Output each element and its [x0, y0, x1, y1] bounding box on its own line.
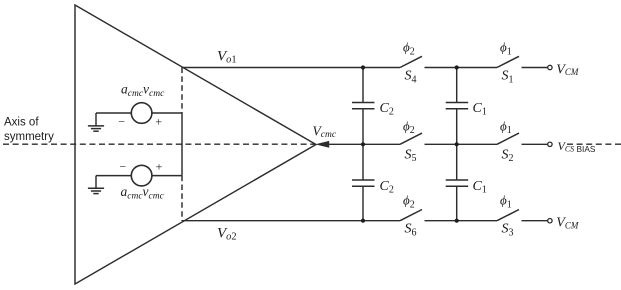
- wire (source E1 to node, + side): [152, 112, 182, 114]
- svg-text:S2: S2: [502, 147, 514, 164]
- svg-text:Axis of: Axis of: [4, 117, 39, 129]
- svg-text:ϕ2: ϕ2: [403, 118, 415, 136]
- svg-text:C2: C2: [380, 101, 394, 118]
- switch S6 blade (phi2): [400, 210, 422, 221]
- svg-text:S5: S5: [405, 147, 417, 164]
- svg-text:ϕ2: ϕ2: [403, 40, 415, 58]
- terminal VCM (top) open circle: [548, 65, 552, 69]
- svg-text:VCM: VCM: [556, 62, 579, 77]
- axis of symmetry dashed line (right segment through VCS BIAS label): [567, 143, 621, 145]
- svg-text:VCM: VCM: [556, 216, 579, 231]
- terminal VCS BIAS open circle: [548, 142, 552, 146]
- op-amp U1 (fully differential amplifier triangle): [75, 5, 316, 284]
- wire (S3 to VCM terminal): [522, 220, 548, 222]
- junction dot (Vo1 / C2 top): [361, 65, 365, 69]
- wire (S5 to S2 pivot): [425, 143, 498, 145]
- junction dot (Vo2 / C1 bottom): [455, 219, 459, 223]
- junction dot (Vcmc / C2): [361, 142, 365, 146]
- wire (node Vo1 rail to switch S4): [182, 67, 400, 69]
- wire (S2 to VCS BIAS terminal): [522, 143, 548, 145]
- capacitor C1 (bottom): [446, 144, 469, 220]
- svg-text:−: −: [119, 159, 126, 173]
- svg-text:ϕ1: ϕ1: [500, 118, 512, 136]
- controlled source E2 (a_cmc v_cmc) circle: [131, 165, 152, 186]
- switch S3 blade (phi1): [497, 210, 519, 221]
- wire (ground to source E2): [96, 175, 131, 177]
- wire (Vcmc arrow to switch S5): [328, 143, 400, 145]
- wire (S1 to VCM terminal): [522, 67, 548, 69]
- wire (sources common vertical, x=182): [181, 113, 183, 176]
- svg-text:S3: S3: [502, 222, 514, 239]
- ground (top source): [88, 113, 104, 131]
- junction dot (Vo1 / C1 top): [455, 65, 459, 69]
- switch S4 blade (phi2): [400, 56, 422, 67]
- switch S2 blade (phi1): [497, 133, 519, 144]
- wire (source E2 to node, + side): [152, 175, 182, 177]
- terminal VCM (bottom) open circle: [548, 219, 552, 223]
- svg-text:C2: C2: [380, 179, 394, 196]
- dashed feedback line lower (node Vo2 sense): [181, 176, 183, 221]
- wire (S6 to S3 pivot): [425, 220, 498, 222]
- capacitor C2 (bottom): [352, 144, 375, 220]
- controlled source E1 (a_cmc v_cmc) circle: [131, 103, 152, 124]
- svg-text:S4: S4: [405, 69, 417, 86]
- node Vcmc arrow into op-amp: [317, 141, 329, 147]
- svg-text:VCS BIAS: VCS BIAS: [558, 139, 596, 154]
- ground (bottom source): [88, 176, 104, 194]
- svg-text:S6: S6: [405, 222, 417, 239]
- svg-text:Vo2: Vo2: [217, 225, 237, 242]
- dashed feedback line upper (node Vo1 sense): [181, 68, 183, 114]
- svg-text:C1: C1: [473, 179, 487, 196]
- switch S1 blade (phi1): [497, 56, 519, 67]
- junction dot (Vo2 / C2 bottom): [361, 219, 365, 223]
- axis of symmetry dashed line (left segment): [3, 143, 316, 145]
- svg-text:Vo1: Vo1: [217, 48, 237, 65]
- svg-text:acmcvcmc: acmcvcmc: [121, 184, 165, 202]
- wire (ground to source E1): [96, 112, 131, 114]
- svg-text:C1: C1: [473, 101, 487, 118]
- svg-text:acmcvcmc: acmcvcmc: [121, 82, 165, 100]
- switch S5 blade (phi2): [400, 133, 422, 144]
- svg-text:+: +: [156, 159, 163, 173]
- junction dot (Vcmc / C1): [455, 142, 459, 146]
- svg-text:ϕ1: ϕ1: [500, 193, 512, 211]
- svg-text:Vcmc: Vcmc: [313, 123, 337, 140]
- svg-text:S1: S1: [502, 69, 514, 86]
- svg-text:symmetry: symmetry: [4, 131, 54, 143]
- wire (S4 to S1 pivot): [425, 67, 498, 69]
- wire (node Vo2 rail to switch S6): [182, 220, 400, 222]
- svg-text:−: −: [118, 115, 125, 129]
- svg-text:+: +: [155, 115, 162, 129]
- capacitor C2 (top): [352, 68, 375, 145]
- svg-text:ϕ2: ϕ2: [403, 193, 415, 211]
- svg-text:ϕ1: ϕ1: [500, 40, 512, 58]
- capacitor C1 (top): [446, 68, 469, 145]
